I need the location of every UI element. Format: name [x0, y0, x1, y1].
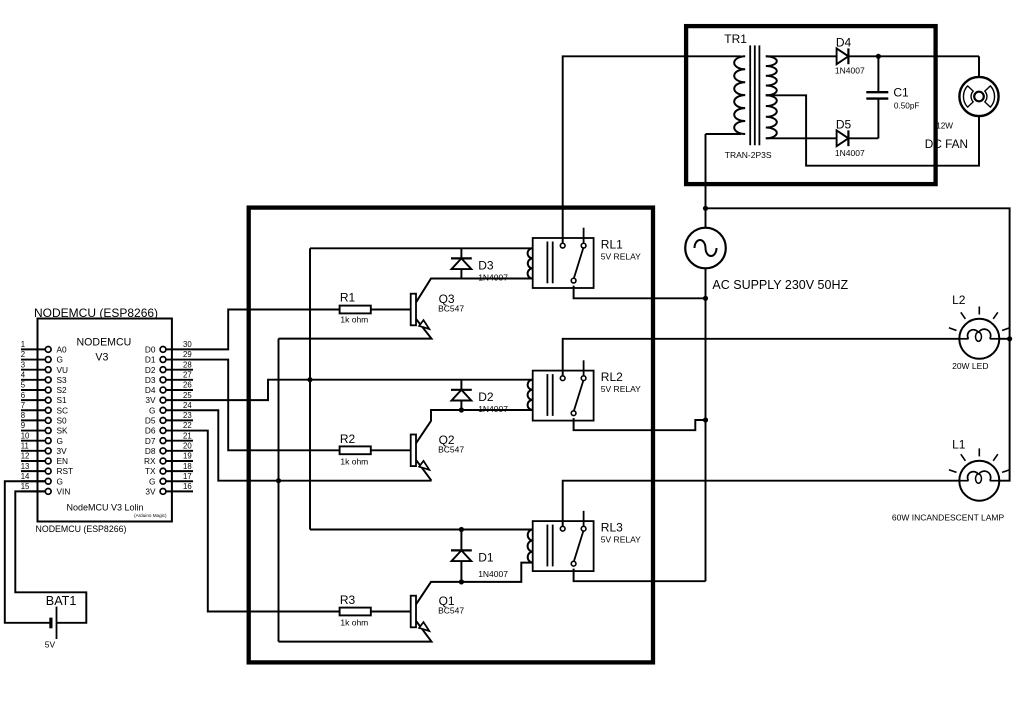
- svg-text:1k ohm: 1k ohm: [340, 315, 368, 325]
- svg-text:G: G: [57, 476, 63, 486]
- svg-text:TR1: TR1: [724, 32, 747, 46]
- svg-text:0.50pF: 0.50pF: [894, 102, 920, 111]
- svg-text:S2: S2: [57, 385, 68, 395]
- svg-text:19: 19: [183, 452, 192, 461]
- svg-text:D8: D8: [145, 446, 156, 456]
- svg-text:SC: SC: [57, 405, 69, 415]
- svg-text:5V RELAY: 5V RELAY: [601, 534, 641, 544]
- svg-text:SK: SK: [57, 426, 69, 436]
- svg-text:R2: R2: [340, 432, 356, 446]
- svg-text:6: 6: [21, 391, 25, 400]
- svg-text:1N4007: 1N4007: [478, 569, 508, 579]
- svg-text:A0: A0: [57, 345, 68, 355]
- svg-text:14: 14: [21, 472, 30, 481]
- svg-text:D3: D3: [145, 375, 156, 385]
- svg-text:1N4007: 1N4007: [835, 148, 865, 158]
- svg-text:3V: 3V: [145, 395, 156, 405]
- svg-text:D0: D0: [145, 345, 156, 355]
- svg-text:NODEMCU: NODEMCU: [77, 337, 132, 349]
- svg-text:D2: D2: [145, 365, 156, 375]
- svg-text:1N4007: 1N4007: [478, 404, 508, 414]
- svg-text:1k ohm: 1k ohm: [340, 617, 368, 627]
- svg-text:BC547: BC547: [438, 445, 464, 455]
- svg-text:D7: D7: [145, 436, 156, 446]
- svg-text:23: 23: [183, 411, 192, 420]
- svg-text:5V RELAY: 5V RELAY: [601, 384, 641, 394]
- svg-text:RST: RST: [57, 466, 74, 476]
- svg-text:D6: D6: [145, 426, 156, 436]
- svg-text:29: 29: [183, 350, 192, 359]
- svg-text:13: 13: [21, 462, 30, 471]
- svg-text:D4: D4: [145, 385, 156, 395]
- svg-text:(Arduino Magic): (Arduino Magic): [134, 513, 167, 518]
- svg-text:5V: 5V: [45, 640, 56, 650]
- svg-text:D1: D1: [145, 355, 156, 365]
- svg-text:1N4007: 1N4007: [835, 65, 865, 75]
- svg-text:2: 2: [21, 350, 25, 359]
- svg-text:DC FAN: DC FAN: [925, 137, 968, 151]
- svg-text:G: G: [57, 436, 63, 446]
- svg-text:11: 11: [21, 442, 29, 451]
- svg-text:NodeMCU V3 Lolin: NodeMCU V3 Lolin: [66, 503, 143, 513]
- svg-text:10: 10: [21, 431, 30, 440]
- svg-text:30: 30: [183, 340, 192, 349]
- svg-text:RX: RX: [144, 456, 156, 466]
- svg-text:12: 12: [21, 452, 30, 461]
- svg-text:25: 25: [183, 391, 192, 400]
- svg-text:D3: D3: [478, 259, 494, 273]
- svg-text:RL2: RL2: [601, 370, 623, 384]
- svg-text:27: 27: [183, 371, 192, 380]
- svg-text:V3: V3: [95, 352, 108, 364]
- svg-text:5: 5: [21, 381, 26, 390]
- svg-text:G: G: [57, 355, 63, 365]
- svg-text:RL1: RL1: [601, 238, 623, 252]
- svg-text:L1: L1: [952, 437, 966, 451]
- svg-text:3V: 3V: [145, 487, 156, 497]
- svg-text:24: 24: [183, 401, 192, 410]
- svg-text:1k ohm: 1k ohm: [340, 456, 368, 466]
- svg-text:BAT1: BAT1: [46, 594, 77, 608]
- svg-text:18: 18: [183, 462, 192, 471]
- svg-text:3: 3: [21, 360, 25, 369]
- svg-text:D5: D5: [145, 416, 156, 426]
- svg-text:AC SUPPLY 230V 50HZ: AC SUPPLY 230V 50HZ: [712, 278, 848, 292]
- svg-text:D2: D2: [478, 390, 494, 404]
- svg-text:17: 17: [183, 472, 192, 481]
- svg-text:BC547: BC547: [438, 606, 464, 616]
- svg-text:EN: EN: [57, 456, 69, 466]
- svg-text:NODEMCU (ESP8266): NODEMCU (ESP8266): [34, 306, 158, 320]
- svg-text:8: 8: [21, 411, 25, 420]
- svg-text:BC547: BC547: [438, 304, 464, 314]
- svg-text:1N4007: 1N4007: [478, 273, 508, 283]
- svg-text:20W LED: 20W LED: [952, 361, 988, 371]
- svg-text:9: 9: [21, 421, 25, 430]
- svg-text:1: 1: [21, 340, 25, 349]
- svg-text:D4: D4: [836, 35, 852, 49]
- svg-text:S1: S1: [57, 395, 68, 405]
- svg-text:28: 28: [183, 360, 192, 369]
- svg-text:16: 16: [183, 482, 192, 491]
- svg-text:G: G: [149, 405, 155, 415]
- svg-text:TX: TX: [145, 466, 156, 476]
- svg-text:7: 7: [21, 401, 25, 410]
- svg-text:21: 21: [183, 431, 192, 440]
- svg-text:15: 15: [21, 482, 30, 491]
- svg-text:C1: C1: [893, 85, 909, 99]
- svg-text:G: G: [149, 476, 155, 486]
- svg-text:NODEMCU (ESP8266): NODEMCU (ESP8266): [36, 524, 127, 534]
- svg-text:R3: R3: [340, 593, 356, 607]
- svg-text:60W INCANDESCENT LAMP: 60W INCANDESCENT LAMP: [892, 512, 1005, 522]
- svg-text:D5: D5: [836, 118, 852, 132]
- svg-text:R1: R1: [340, 291, 356, 305]
- svg-text:D1: D1: [478, 550, 494, 564]
- svg-text:3V: 3V: [57, 446, 68, 456]
- svg-text:12W: 12W: [936, 121, 953, 130]
- svg-text:VIN: VIN: [57, 487, 71, 497]
- svg-text:TRAN-2P3S: TRAN-2P3S: [725, 150, 772, 160]
- svg-text:L2: L2: [952, 293, 966, 307]
- svg-text:RL3: RL3: [601, 521, 623, 535]
- svg-text:5V RELAY: 5V RELAY: [601, 251, 641, 261]
- svg-text:20: 20: [183, 442, 192, 451]
- svg-text:S0: S0: [57, 416, 68, 426]
- svg-text:4: 4: [21, 371, 26, 380]
- svg-text:VU: VU: [57, 365, 69, 375]
- svg-text:S3: S3: [57, 375, 68, 385]
- svg-text:26: 26: [183, 381, 192, 390]
- svg-text:22: 22: [183, 421, 192, 430]
